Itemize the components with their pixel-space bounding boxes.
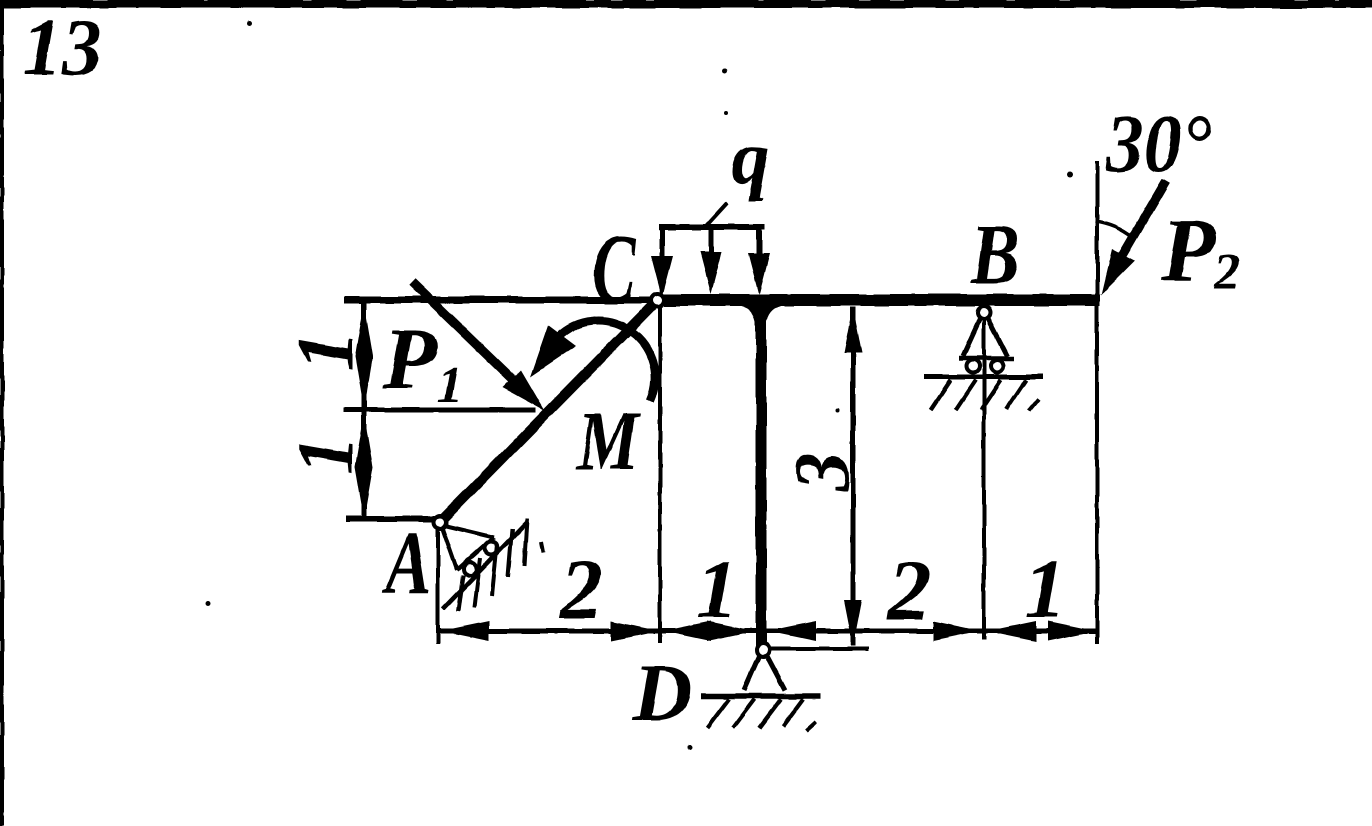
support A pin circle bbox=[434, 516, 446, 528]
dim 3 arrowhead down bbox=[844, 600, 862, 646]
q right arrowhead bbox=[748, 253, 770, 295]
svg-text:2: 2 bbox=[558, 541, 603, 637]
support A bracket base bbox=[457, 537, 494, 570]
support D hatch 1 bbox=[707, 699, 729, 728]
svg-text:D: D bbox=[632, 647, 692, 738]
svg-text:A: A bbox=[381, 514, 432, 613]
support B hatch 3 bbox=[981, 380, 1001, 410]
extension line below A bbox=[436, 526, 440, 644]
svg-text:1: 1 bbox=[282, 435, 370, 475]
speck 6 bbox=[836, 408, 840, 412]
extension line below C bbox=[658, 307, 662, 643]
svg-text:q: q bbox=[731, 114, 770, 201]
inclined member A-C bbox=[440, 300, 658, 522]
fillet right of vertical member bbox=[766, 306, 781, 324]
q left arrowhead bbox=[651, 256, 673, 298]
support D triangle left leg bbox=[744, 656, 759, 690]
support B triangle base bbox=[959, 356, 1014, 361]
dim 3 vertical line bbox=[851, 307, 856, 646]
svg-text:1: 1 bbox=[696, 543, 738, 636]
support A hatch tick bbox=[541, 542, 543, 553]
left dim arrowhead down (segment 2) bbox=[355, 467, 373, 519]
node C circle bbox=[652, 294, 665, 307]
svg-text:C: C bbox=[592, 214, 637, 322]
q right arrow shaft bbox=[756, 227, 762, 258]
moment M arc bbox=[558, 321, 655, 401]
speck 2b bbox=[724, 111, 728, 115]
extension line below B bbox=[982, 318, 986, 640]
bottom dim arrowhead at A pointing left bbox=[441, 621, 489, 641]
support A bracket left leg bbox=[442, 527, 457, 570]
support D pin circle bbox=[757, 644, 770, 657]
dim 3 arrowhead up bbox=[844, 307, 862, 353]
dim 3 bottom reference line from pin D bbox=[768, 647, 869, 651]
left dim vertical line bbox=[362, 300, 367, 521]
vertical reference line at right end bbox=[1095, 161, 1099, 644]
support B ground line bbox=[924, 375, 1043, 380]
q middle arrowhead bbox=[700, 252, 722, 294]
support B hatch 1 bbox=[931, 380, 951, 410]
fillet left of vertical member bbox=[741, 306, 756, 324]
moment M arrowhead bbox=[530, 325, 576, 377]
beam C to right end bbox=[652, 294, 1100, 306]
bottom dim arrowhead left of segment 1mid bbox=[663, 621, 711, 641]
left dim: middle reference line bbox=[343, 408, 536, 413]
support A roller 2 bbox=[464, 563, 477, 576]
support B roller 1 bbox=[967, 360, 980, 373]
svg-text:P: P bbox=[1160, 201, 1217, 300]
top reference line left of C bbox=[344, 297, 660, 304]
support B hatch comma bbox=[1029, 399, 1039, 411]
svg-text:1: 1 bbox=[437, 357, 463, 414]
support A inclined ground line bbox=[443, 522, 527, 609]
bottom dim arrowhead left of segment 1right bbox=[988, 621, 1036, 641]
30 degree angle arc bbox=[1095, 221, 1133, 237]
support B hatch 2 bbox=[956, 380, 976, 410]
bottom dim arrowhead right of segment 2 bbox=[611, 621, 659, 641]
left dim arrowhead up (segment 1) bbox=[355, 303, 373, 356]
force P1 arrowhead bbox=[503, 370, 545, 411]
support B hatch 4 bbox=[1006, 380, 1026, 410]
left dim arrowhead down (segment 1) bbox=[355, 356, 373, 409]
top border bar bbox=[0, 0, 1372, 8]
force P2 arrowhead bbox=[1101, 249, 1135, 295]
distributed load q: top line bbox=[659, 224, 765, 230]
svg-text:P: P bbox=[382, 311, 438, 408]
support B roller 2 bbox=[991, 360, 1004, 373]
support A bracket top leg bbox=[444, 525, 494, 537]
support A hatch 5 bbox=[524, 519, 527, 566]
support B pin circle bbox=[978, 307, 991, 320]
svg-text:1: 1 bbox=[282, 331, 370, 371]
left dim arrowhead up (segment 2) bbox=[355, 414, 373, 467]
speck 4 bbox=[206, 601, 211, 606]
svg-text:2: 2 bbox=[1213, 244, 1240, 301]
support D hatch 4 bbox=[783, 699, 803, 726]
support B triangle right leg bbox=[988, 319, 1007, 356]
q middle arrow shaft bbox=[709, 227, 714, 258]
force P1 shaft bbox=[412, 282, 528, 394]
svg-text:M: M bbox=[575, 394, 641, 488]
support D triangle right leg bbox=[767, 656, 785, 690]
support D hatch comma bbox=[806, 722, 816, 731]
speck 5 bbox=[688, 745, 693, 750]
bottom dimension line bbox=[440, 629, 1098, 634]
bottom dim arrowhead at right end pointing right bbox=[1048, 621, 1096, 641]
force P2 shaft bbox=[1110, 181, 1166, 277]
q left arrow shaft bbox=[660, 227, 665, 262]
support B triangle left leg bbox=[963, 319, 980, 356]
support D ground line bbox=[701, 693, 820, 699]
svg-text:B: B bbox=[970, 207, 1019, 302]
support A hatch 3 bbox=[492, 544, 497, 596]
support A hatch 2 bbox=[474, 558, 480, 608]
support A hatch 1 bbox=[458, 575, 463, 612]
bottom dim arrowhead left of segment 2right bbox=[768, 621, 816, 641]
bottom dim arrowhead right of segment 2right bbox=[933, 621, 981, 641]
svg-text:13: 13 bbox=[22, 4, 102, 92]
speck 1 bbox=[248, 22, 253, 27]
left border line bbox=[0, 8, 4, 826]
svg-text:3: 3 bbox=[778, 452, 865, 492]
bottom dim arrowhead right of segment 1mid bbox=[707, 621, 755, 641]
support A roller 1 bbox=[485, 542, 498, 555]
svg-text:30°: 30° bbox=[1105, 98, 1212, 190]
support D hatch 3 bbox=[759, 699, 781, 728]
left dim: bottom reference line bbox=[346, 516, 437, 522]
speck 2 bbox=[722, 69, 727, 74]
speck 3 bbox=[1067, 172, 1073, 178]
q leader line bbox=[706, 203, 727, 226]
svg-text:1: 1 bbox=[1024, 543, 1066, 636]
svg-text:2: 2 bbox=[886, 542, 931, 638]
support D hatch 2 bbox=[733, 699, 755, 728]
vertical member C-D bbox=[756, 302, 767, 647]
support A hatch 4 bbox=[508, 529, 512, 577]
